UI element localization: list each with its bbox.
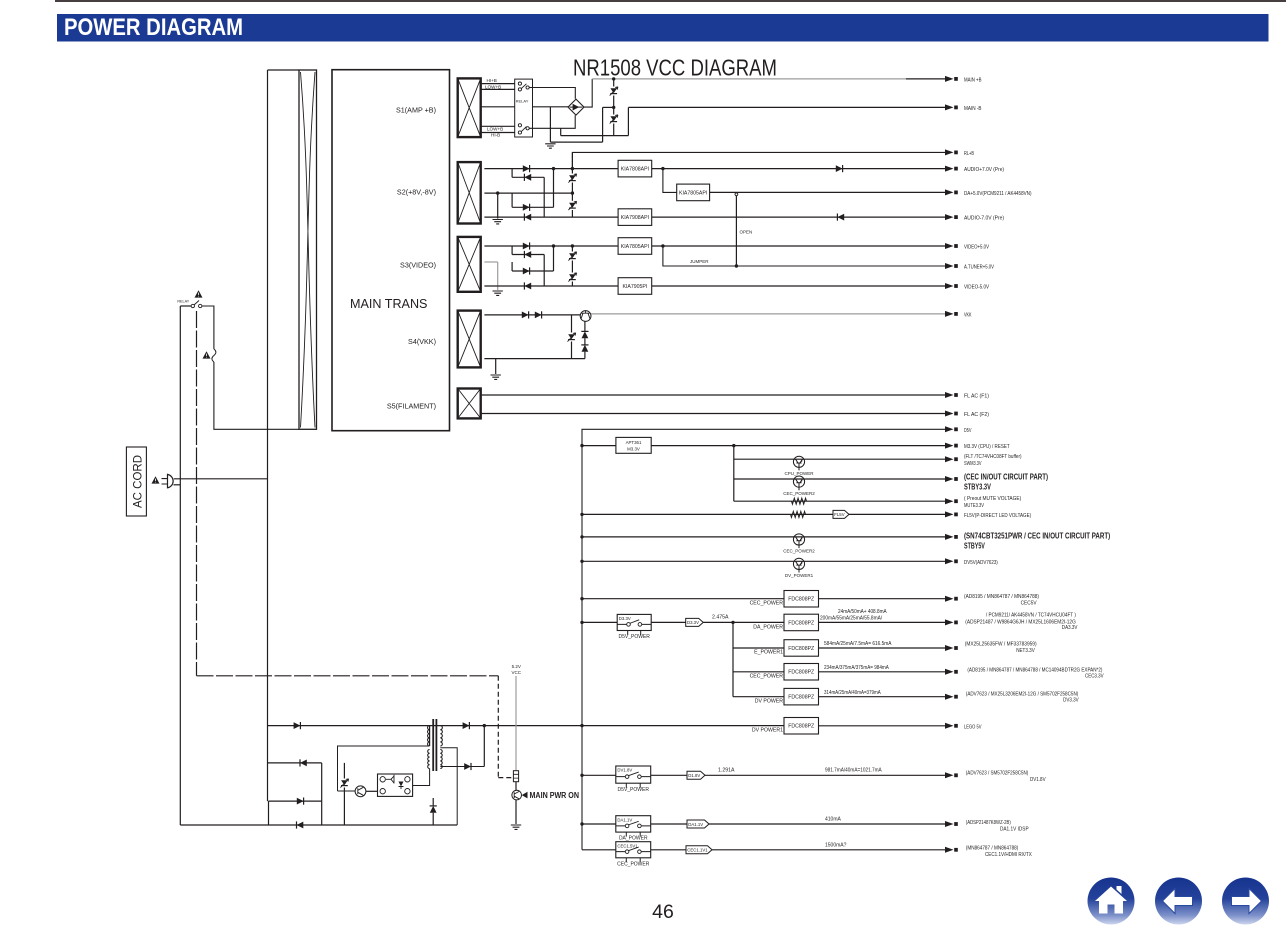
wire plug to AC bus (174, 478, 268, 480)
wire DA1.1V out (709, 823, 945, 825)
svg-text:FDC808PZ: FDC808PZ (788, 670, 814, 676)
wire VIDEO-5.0V (652, 285, 945, 287)
terminal arrow CEC1.1V (945, 847, 954, 853)
wire relay left contact to AC bus (180, 305, 191, 307)
net tag DA1.1V (687, 820, 709, 828)
resistor R52 (791, 511, 806, 517)
svg-text:KIA7805API: KIA7805API (621, 244, 649, 250)
node junction bus-standby (580, 724, 583, 727)
svg-text:FDC808PZ: FDC808PZ (788, 646, 814, 652)
fuse U62 FDC808PZ (784, 614, 819, 631)
capacitor C1 (613, 79, 615, 87)
regulator U32 KIA7905PI (618, 278, 652, 295)
winding S2 (458, 162, 481, 223)
regulator U5 APT361 M3.3V (616, 437, 651, 453)
capacitor C31 chain (571, 246, 573, 252)
svg-text:OPEN: OPEN (740, 230, 753, 235)
svg-text:24mA/50mA+ 408.8mA: 24mA/50mA+ 408.8mA (838, 609, 887, 615)
svg-text:CEC3.3V: CEC3.3V (1085, 674, 1104, 680)
svg-text:(FLT /TC74VHC08FT buffer): (FLT /TC74VHC08FT buffer) (964, 454, 1022, 460)
wire S1 LOW+B bottom (481, 125, 515, 127)
transformer T2 secondary upper (440, 726, 442, 746)
terminal arrow CEC5V (945, 596, 954, 602)
wire to CEC switch (582, 849, 616, 851)
fuse U64 FDC808PZ (784, 664, 819, 681)
fuse F71 (513, 771, 518, 782)
svg-text:STBY3.3V: STBY3.3V (964, 482, 991, 492)
hazard triangle at plug (152, 476, 160, 483)
terminal arrow FL AC F2 (945, 411, 954, 417)
wire to APT361 (582, 445, 616, 447)
fuse U61 FDC808PZ (784, 591, 819, 608)
winding S5 (458, 389, 481, 419)
svg-text:( Preout MUTE VOLTAGE): ( Preout MUTE VOLTAGE) (964, 496, 1021, 502)
wire VIDEO+5.0V (652, 245, 945, 247)
transistor Q72 MAIN PWR ON (512, 790, 522, 800)
svg-text:CEC1.1V1: CEC1.1V1 (687, 848, 708, 853)
relay K2 contacts (191, 304, 194, 307)
wire STBY5V (582, 536, 945, 538)
wire switch to CEC1.1V1 tag (651, 849, 686, 851)
wire CEC5V out (819, 598, 946, 600)
wire standby tap2 (268, 762, 322, 764)
terminal arrow VKK (945, 311, 954, 317)
svg-text:(ADSP21487 / W9864G6JH / MX25L: (ADSP21487 / W9864G6JH / MX25L1606EM2I-1… (965, 619, 1076, 625)
node junction A.TUNER tap (661, 244, 664, 247)
wire STBY3.3V (734, 478, 945, 480)
terminal arrow STBY3.3V (945, 476, 954, 482)
svg-text:CEC_POWER2: CEC_POWER2 (783, 549, 815, 554)
node junction M3.3V branch (732, 444, 735, 447)
wire standby vertical (321, 763, 323, 825)
wire CEC1.1V out (712, 849, 945, 851)
wire S2 -8V rail (484, 216, 618, 218)
svg-text:(AD8195 / MN864787 / MN864788: (AD8195 / MN864787 / MN864788 / MC14094B… (967, 668, 1102, 674)
node junction APT361 tap (580, 444, 583, 447)
diode D34 (524, 283, 531, 290)
zener D43 (584, 321, 586, 331)
wire FL5V (582, 513, 945, 515)
wire S2 +8V rail (484, 168, 618, 170)
svg-text:DA+5.0V(PCM9211 / AK4458VN): DA+5.0V(PCM9211 / AK4458VN) (964, 191, 1032, 197)
svg-text:LOW+B: LOW+B (487, 126, 503, 131)
svg-text:MUTE3.3V: MUTE3.3V (964, 503, 984, 509)
capacitor C2 (610, 116, 617, 121)
svg-text:DA1.1V IDSP: DA1.1V IDSP (1000, 826, 1029, 832)
terminal arrow DV1.8V (945, 772, 954, 778)
ground MAIN PWR ON (511, 825, 521, 829)
svg-text:CPU_POWER: CPU_POWER (784, 471, 814, 476)
svg-text:D1.8V: D1.8V (688, 773, 700, 778)
transformer T2 primary upper (429, 726, 431, 746)
svg-text:DV1.8V: DV1.8V (617, 768, 632, 773)
regulator U23 KIA7908API (618, 209, 652, 226)
svg-text:HI+B: HI+B (487, 78, 497, 83)
svg-text:MAIN PWR ON: MAIN PWR ON (530, 791, 580, 800)
wire standby bottom (180, 824, 457, 826)
svg-text:CEC5V: CEC5V (1021, 600, 1037, 606)
terminal arrow NET3.3V (945, 645, 954, 651)
svg-text:S4(VKK): S4(VKK) (408, 337, 436, 346)
terminal arrow FL5V (945, 511, 954, 517)
transformer T1 primary winding box (299, 70, 317, 429)
terminal arrow MAIN -B (945, 104, 954, 110)
svg-text:POWER DIAGRAM: POWER DIAGRAM (64, 14, 243, 41)
wire secondary rectifier join (483, 726, 485, 767)
terminal arrow VIDEO-5.0V (945, 283, 954, 289)
OPEN link vertical (735, 193, 738, 196)
terminal arrow DV3.3V (945, 694, 954, 700)
wire AC hot top horizontal (268, 69, 300, 71)
capacitor C41 (571, 315, 573, 333)
diode D76 (464, 763, 471, 770)
svg-text:FL5V: FL5V (834, 512, 844, 517)
diode D71 (294, 722, 301, 729)
diode D77 (463, 722, 470, 729)
wire relay to bridge top (529, 88, 575, 99)
wire to DA regulator (663, 169, 677, 193)
svg-text:(MN864787 / MN864788): (MN864787 / MN864788) (966, 846, 1019, 852)
svg-text:5.2V: 5.2V (512, 664, 521, 669)
svg-text:FDC808PZ: FDC808PZ (788, 695, 814, 701)
terminal arrow D5V (945, 426, 954, 432)
svg-text:(SN74CBT3251PWR / CEC IN/OUT C: (SN74CBT3251PWR / CEC IN/OUT CIRCUIT PAR… (964, 531, 1110, 541)
node junction OPEN bottom (735, 264, 738, 267)
svg-text:VIDEO-5.0V: VIDEO-5.0V (964, 285, 989, 291)
nav button home (1088, 878, 1135, 925)
transformer T2 primary lower (428, 750, 430, 769)
wire S2 tap2 (512, 176, 544, 178)
capacitor C22 (569, 203, 576, 208)
svg-text:KIA7908API: KIA7908API (621, 215, 649, 221)
svg-text:(ADSP21487K8WZ-2B): (ADSP21487K8WZ-2B) (966, 820, 1011, 826)
wire MAIN -B vertical (627, 107, 629, 135)
diode D75 inside IC (399, 782, 404, 787)
wire VKK gray (591, 313, 945, 315)
terminal arrow AUDIO+7.0V (945, 166, 954, 172)
transistor Q51 CPU_POWER (793, 456, 804, 467)
wire S1 mid to bridge (481, 106, 515, 108)
wire plug neutral lead (174, 484, 181, 486)
svg-text:KIA7905PI: KIA7905PI (622, 284, 647, 290)
svg-text:JUMPER: JUMPER (690, 259, 709, 264)
node junction CEC5V tap (580, 597, 583, 600)
terminal arrow RL+B (945, 149, 954, 155)
diode D26 (837, 214, 844, 221)
svg-text:DA3.3V: DA3.3V (1062, 625, 1078, 631)
svg-text:46: 46 (652, 901, 674, 923)
svg-text:KIA7805API: KIA7805API (679, 190, 707, 196)
transistor Q52 CEC_POWER2 (793, 476, 804, 487)
svg-text:VIDEO+5.0V: VIDEO+5.0V (964, 245, 989, 251)
net tag D1.8V (687, 771, 705, 779)
svg-text:(MX25L25635FW / MF33783959): (MX25L25635FW / MF33783959) (965, 641, 1037, 647)
svg-text:APT361: APT361 (626, 440, 642, 445)
svg-text:AUDIO-7.0V (Pre): AUDIO-7.0V (Pre) (964, 216, 1004, 222)
net tag CEC1.1V1 (686, 846, 712, 854)
diode D42 (535, 312, 542, 319)
terminal arrow AUDIO-7.0V (945, 214, 954, 220)
node junction DV1.8V tap (580, 774, 583, 777)
svg-text:200mA/55mA/25mA/55.8mA/: 200mA/55mA/25mA/55.8mA/ (820, 616, 883, 622)
svg-text:LEGO 5V: LEGO 5V (964, 724, 982, 730)
node junction DV5V tap (580, 560, 583, 563)
hazard triangle at relay K2 (195, 290, 203, 297)
wire MAIN -B (603, 106, 614, 108)
resistor R51 (792, 498, 807, 504)
diode D72 (300, 760, 307, 767)
winding S1 (458, 78, 481, 137)
node junction STBY5V tap (580, 535, 583, 538)
diode D22 (524, 174, 531, 181)
terminal arrow CEC3.3V (945, 669, 954, 675)
diode D24 (524, 214, 531, 221)
wire to FDC4 (733, 671, 784, 673)
node junction caps top (612, 77, 615, 80)
svg-text:DV POWER: DV POWER (755, 698, 783, 704)
svg-text:DV5V(ADV7623): DV5V(ADV7623) (964, 560, 998, 566)
terminal arrow DA+5.0V (945, 189, 954, 195)
node junction D3.3V tap (580, 621, 583, 624)
wire S1 HI+B (481, 83, 515, 85)
wire MAIN +B (906, 78, 945, 80)
svg-text:SWM3.3V: SWM3.3V (964, 461, 982, 467)
dashed control vertical (497, 676, 499, 778)
svg-text:FL5V(P-DIRECT LED VOLTAGE): FL5V(P-DIRECT LED VOLTAGE) (964, 513, 1031, 519)
wire relay control dashed vertical (196, 311, 198, 676)
svg-text:D5V_POWER: D5V_POWER (618, 634, 650, 640)
hazard triangle at thermal fuse (203, 351, 211, 358)
wire LEGO 5V out (819, 725, 946, 727)
fuse U66 FDC808PZ (784, 718, 819, 735)
svg-text:S2(+8V,-8V): S2(+8V,-8V) (397, 188, 436, 197)
svg-text:CEC1.5V1: CEC1.5V1 (617, 843, 638, 848)
AC CORD label box (126, 447, 146, 516)
svg-text:CEC1.1V/HDMI RX/TX: CEC1.1V/HDMI RX/TX (985, 852, 1032, 858)
svg-text:CEC_POWER: CEC_POWER (750, 674, 784, 680)
relay RL1 upper contacts (518, 82, 521, 85)
header bar (57, 14, 1269, 42)
svg-text:FL AC (F2): FL AC (F2) (964, 412, 989, 418)
wire NET3.3V out (819, 647, 946, 649)
diode D33 (523, 268, 530, 275)
zener D44 (582, 345, 589, 352)
svg-text:DA1.1V: DA1.1V (688, 822, 703, 827)
switch S71 DV1.8V (616, 766, 651, 783)
ground S2 (493, 220, 503, 224)
svg-text:FDC808PZ: FDC808PZ (788, 620, 814, 626)
relay RL1 lower contacts (518, 124, 521, 127)
winding S3 (458, 237, 481, 292)
wire to FDC5 (733, 696, 784, 698)
svg-text:DA_POWER: DA_POWER (619, 836, 648, 842)
svg-text:D5V: D5V (964, 428, 972, 434)
diode D23 (523, 204, 530, 211)
wire switch to tag (651, 621, 686, 623)
nav button previous (1155, 878, 1202, 925)
wire transistor to ground (515, 800, 517, 824)
node junction DA reg tap (661, 167, 664, 170)
AC plug P1 (168, 474, 174, 487)
diode D32 (524, 251, 531, 258)
svg-text:MAIN TRANS: MAIN TRANS (350, 297, 427, 311)
wire FDC branch vertical (732, 622, 734, 696)
switch S72 DA1.1V (616, 816, 651, 832)
svg-text:DA_POWER: DA_POWER (753, 625, 783, 631)
switch S73 CEC1.5V1 (616, 842, 651, 858)
svg-text:D3.3V: D3.3V (619, 616, 631, 621)
svg-text:VCC: VCC (512, 670, 522, 675)
wire switch to DA1.1V tag (651, 823, 687, 825)
transistor Q71 (355, 786, 366, 797)
svg-text:M3.3V: M3.3V (627, 447, 640, 452)
svg-text:D3.3V: D3.3V (687, 620, 699, 625)
wire to DA1.1V switch (582, 823, 616, 825)
svg-text:NR1508 VCC DIAGRAM: NR1508 VCC DIAGRAM (573, 55, 777, 81)
terminal arrow M3.3V (945, 443, 954, 449)
svg-text:S3(VIDEO): S3(VIDEO) (400, 261, 436, 270)
svg-text:DA1.1V: DA1.1V (617, 817, 632, 822)
capacitor C32 (569, 274, 576, 279)
regulator U31 KIA7805API (618, 238, 652, 255)
node junction FL5V tap (580, 513, 583, 516)
svg-text:314mA/25mA/40mA=379mA: 314mA/25mA/40mA=379mA (824, 690, 881, 696)
wire FL AC F1 (481, 394, 945, 396)
wire MAIN +B gray (592, 78, 906, 80)
transformer T2 secondary lower (440, 750, 442, 769)
regulator U22 KIA7805API (677, 184, 710, 201)
top rule line (55, 0, 1286, 2)
relay RL1 box (515, 79, 533, 137)
node junction DA1.1V tap (580, 822, 583, 825)
switch S61 D3.3V (617, 614, 651, 630)
wire DA+5.0V (710, 191, 945, 193)
node junction FDC branch (731, 621, 734, 624)
svg-text:E_POWER1: E_POWER1 (754, 650, 783, 656)
wire to FDC3 (733, 647, 784, 649)
svg-text:MAIN +B: MAIN +B (964, 77, 982, 83)
arrow MAIN PWR ON (522, 792, 528, 799)
svg-text:NET3.3V: NET3.3V (1016, 648, 1035, 654)
svg-text:D5V_POWER: D5V_POWER (618, 787, 650, 793)
wire S2 center tap (484, 192, 572, 194)
wire SWM3.3V (734, 458, 945, 460)
terminal arrow FL AC F1 (945, 392, 954, 398)
terminal arrow DA3.3V (945, 619, 954, 625)
svg-text:S5(FILAMENT): S5(FILAMENT) (387, 402, 436, 411)
svg-text:/ PCM9211/ AK4458VN / TC74VHCU: / PCM9211/ AK4458VN / TC74VHCU04FT ) (986, 613, 1076, 619)
wire AC vertical bus left (179, 306, 181, 825)
MAIN TRANS box (332, 70, 450, 431)
net tag FL5V (833, 510, 847, 518)
svg-text:584mA/25mA/7.5mA= 616.5mA: 584mA/25mA/7.5mA= 616.5mA (824, 641, 892, 647)
wire to DV1.8V switch (582, 774, 616, 776)
wire DV3.3V out (819, 696, 946, 698)
terminal arrow MAIN +B (945, 76, 954, 82)
svg-text:FDC808PZ: FDC808PZ (788, 597, 814, 603)
wire DV1.8V out (705, 774, 945, 776)
svg-text:STBY5V: STBY5V (964, 541, 985, 551)
diode D74 (297, 822, 304, 829)
wire AUDIO+7.0V (652, 168, 945, 170)
svg-text:HI-B: HI-B (491, 132, 500, 137)
wire switch to D1.8V tag (651, 774, 687, 776)
diode D25 (836, 165, 843, 172)
wire FL AC F2 (481, 413, 945, 415)
terminal arrow MUTE3.3V (945, 498, 954, 504)
wire RL+B (572, 152, 945, 168)
svg-text:CEC_POWER: CEC_POWER (750, 600, 784, 606)
diode D73 (297, 798, 304, 805)
wire 5.2V VCC gray (515, 676, 517, 771)
winding S4 (458, 311, 481, 368)
svg-text:981.7mA/40mA=1021.7mA: 981.7mA/40mA=1021.7mA (825, 767, 882, 773)
svg-text:(ADV7623 / SM5702F258C5N): (ADV7623 / SM5702F258C5N) (966, 770, 1029, 776)
wire primary lower to IC (413, 769, 430, 786)
svg-text:FL AC (F1): FL AC (F1) (964, 394, 989, 400)
svg-text:234mA/375mA/375mA= 984mA: 234mA/375mA/375mA= 984mA (824, 665, 889, 671)
svg-text:2.475A: 2.475A (712, 615, 729, 621)
wire caps bottom return (561, 135, 629, 137)
svg-text:S1(AMP +B): S1(AMP +B) (396, 106, 436, 115)
wire fuse to transformer primary (214, 362, 299, 429)
wire S3 -5V rail (484, 285, 618, 287)
switching IC U71 (378, 774, 413, 796)
svg-text:AUDIO+7.0V (Pre): AUDIO+7.0V (Pre) (964, 167, 1004, 173)
capacitor C21 chain (571, 152, 573, 173)
svg-text:MAIN -B: MAIN -B (964, 106, 982, 112)
ground at bridge (549, 107, 551, 142)
wire S1 HI-B (481, 132, 515, 134)
wire transistor to IC (366, 790, 378, 792)
node junction S2 ground tap (496, 191, 499, 194)
terminal arrow STBY5V (945, 534, 954, 540)
regulator U21 KIA7808API (618, 160, 652, 177)
capacitor C71 (343, 763, 345, 779)
wire S4 bottom (484, 358, 585, 360)
wire relay to thermal fuse (202, 306, 214, 349)
transistor Q41 (580, 311, 591, 322)
wire S3 tap4 (512, 270, 553, 272)
zener D78 (432, 798, 434, 805)
svg-text:410mA: 410mA (825, 817, 842, 823)
transformer T2 core (432, 719, 434, 771)
fuse U65 FDC808PZ (784, 688, 819, 705)
svg-text:CEC_POWER2: CEC_POWER2 (783, 491, 815, 496)
wire AUDIO-7.0V (652, 216, 945, 218)
svg-text:M3.3V (CPU) / RESET: M3.3V (CPU) / RESET (964, 444, 1010, 450)
svg-text:KIA7808API: KIA7808API (621, 167, 649, 173)
svg-text:(ADV7623 / MX25L3206EM2I-12G /: (ADV7623 / MX25L3206EM2I-12G / SM5702F25… (966, 692, 1079, 698)
wire A.TUNER+5.0V (663, 246, 945, 266)
net tag D3.3V (686, 618, 704, 626)
wire branch 3.3V vertical (733, 446, 735, 502)
wire S3 center tap gray (484, 261, 497, 263)
wire DV5V (582, 560, 945, 562)
wire S3 tap2 (512, 254, 544, 256)
svg-text:DV3.3V: DV3.3V (1063, 698, 1079, 704)
svg-text:LOW+B: LOW+B (485, 85, 501, 90)
wire S2 tap4 (512, 206, 553, 208)
wire CEC_POWER to FDC1 (582, 598, 784, 600)
diode D41 (522, 312, 529, 319)
svg-text:RL+B: RL+B (964, 151, 974, 157)
svg-text:RELAY: RELAY (516, 99, 529, 104)
svg-text:RELAY: RELAY (177, 300, 189, 304)
svg-text:DV POWER1: DV POWER1 (752, 728, 783, 734)
wire S1 LOW+B (481, 88, 515, 90)
svg-text:A.TUNER+5.0V: A.TUNER+5.0V (964, 265, 994, 271)
